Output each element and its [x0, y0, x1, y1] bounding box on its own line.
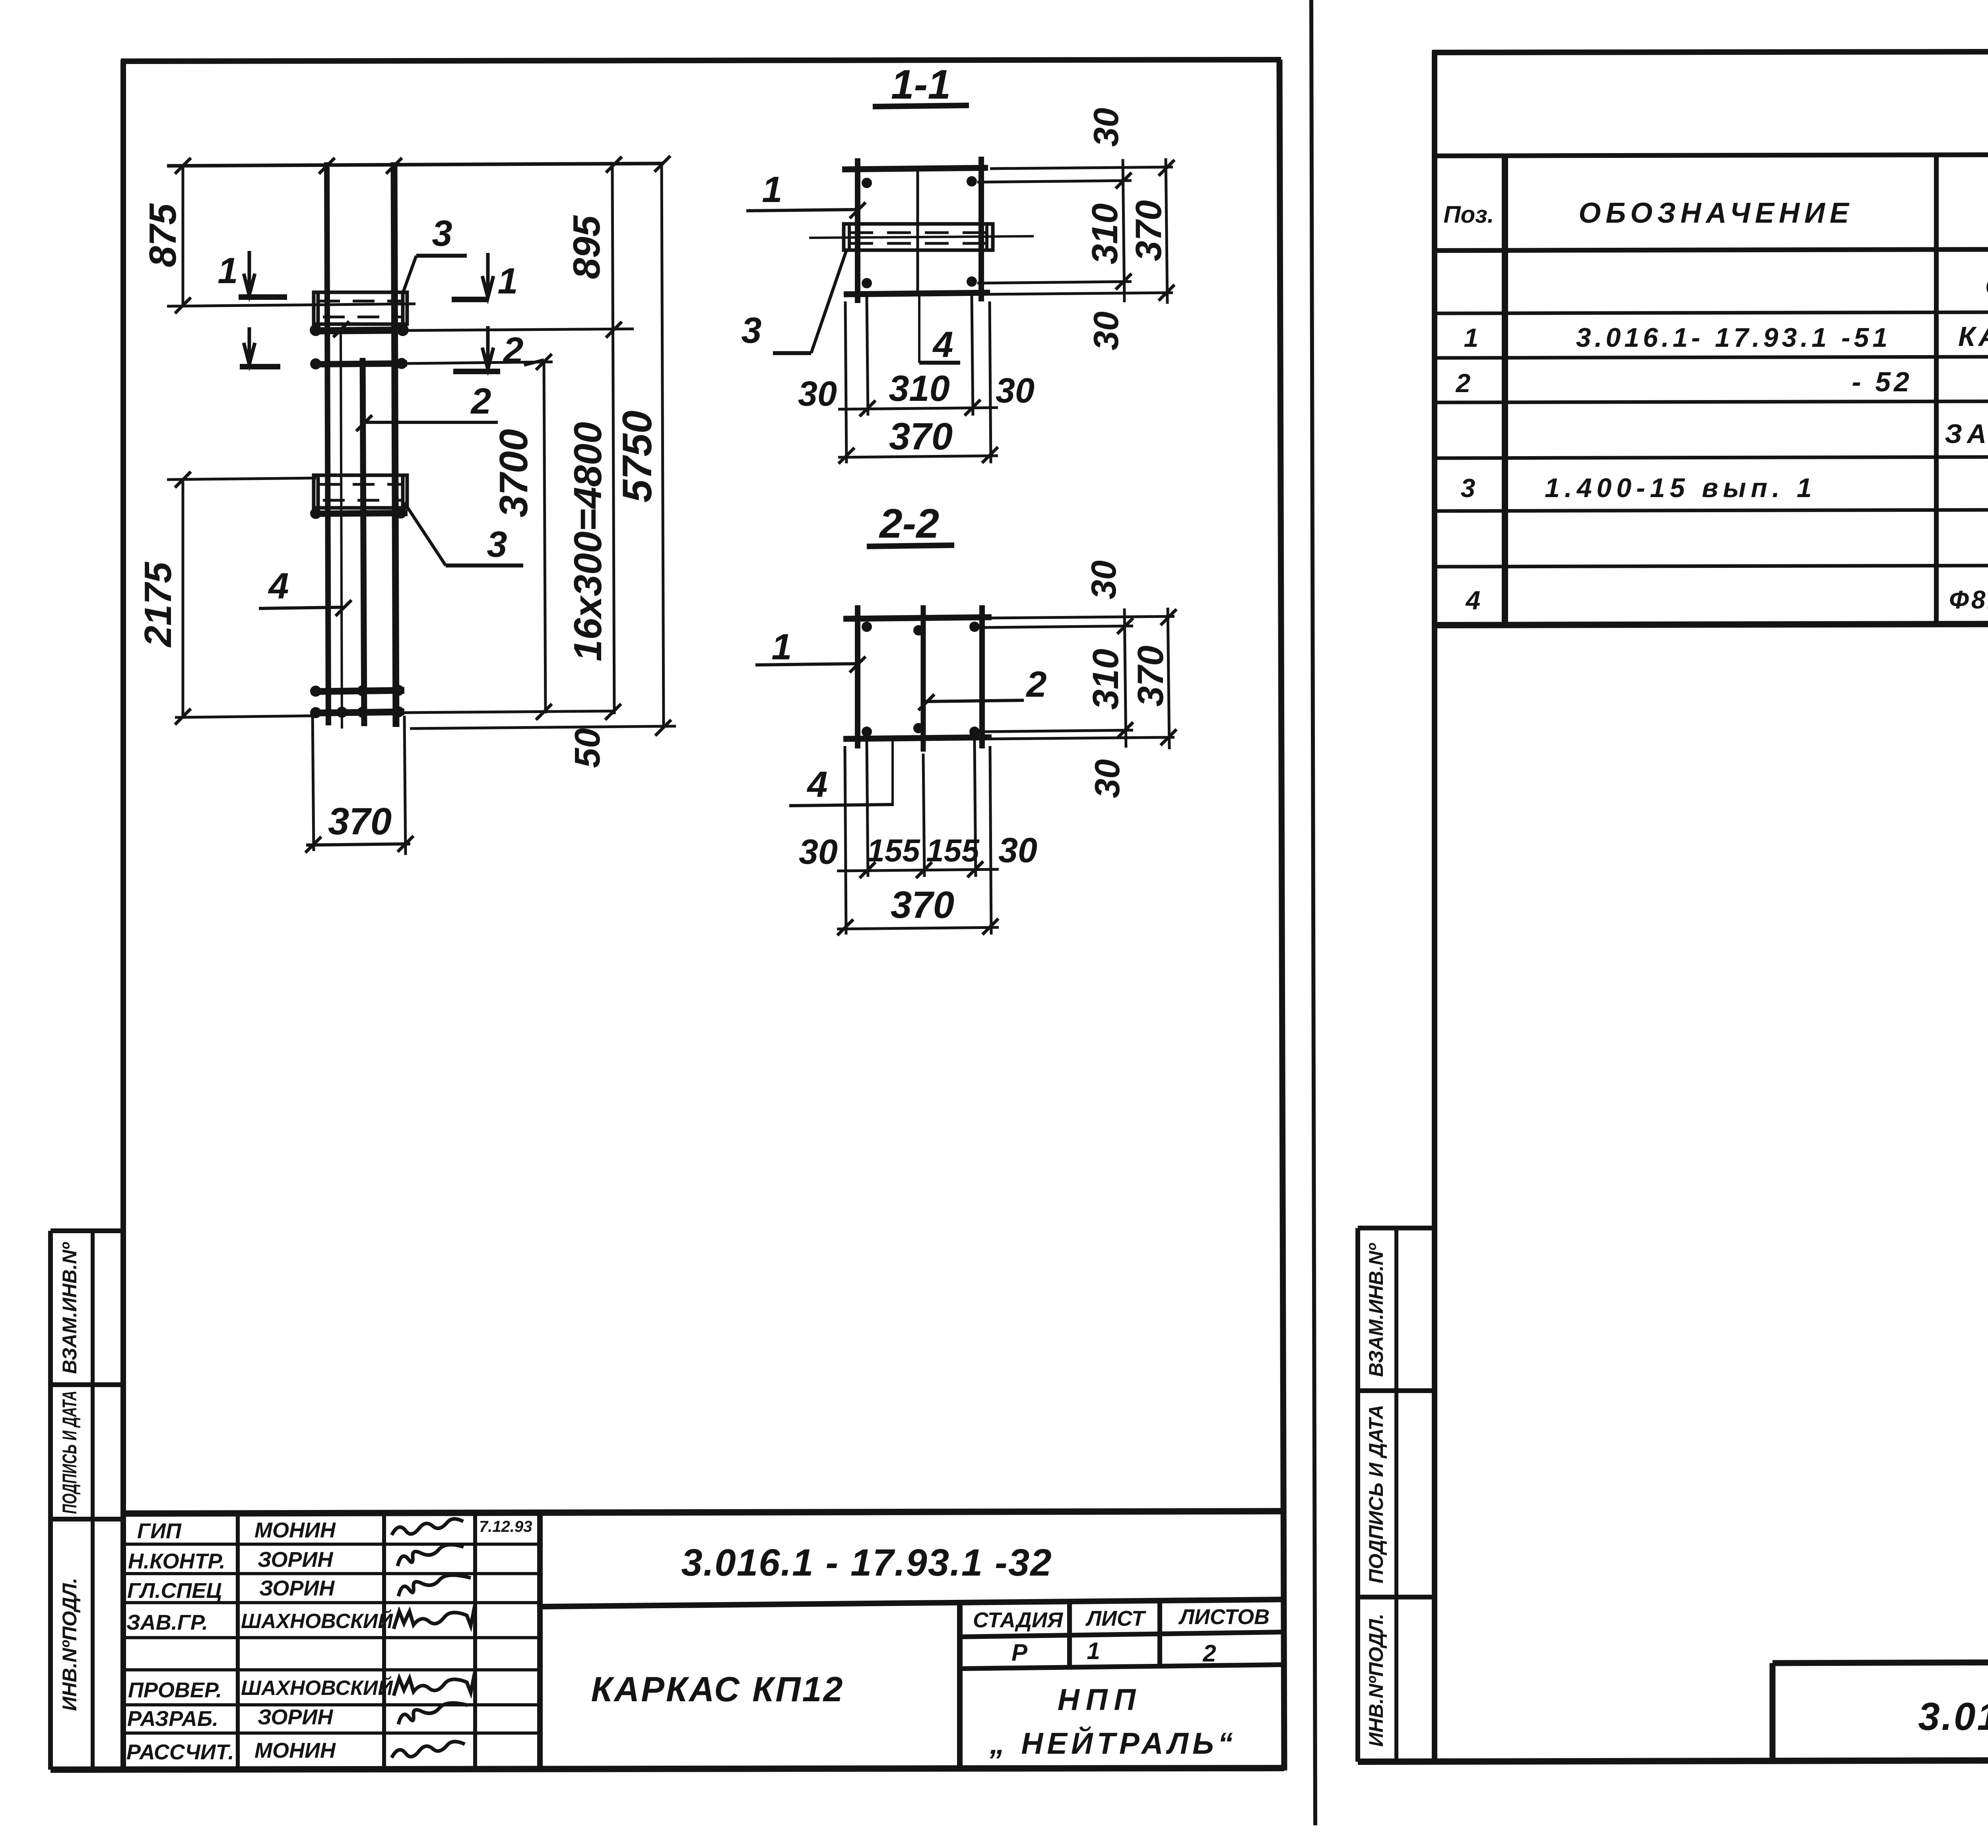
spec row Закладное изделие — [1945, 419, 1988, 449]
stirrup line 2 — [310, 321, 553, 370]
bottom stirrup 1 — [310, 685, 404, 697]
dimension 875 — [142, 166, 191, 313]
dimension line 3700 vertical — [491, 361, 546, 713]
section 1-1 leader label 3 — [741, 251, 846, 353]
svg-text:30: 30 — [1086, 311, 1126, 350]
svg-text:ПРОВЕР.: ПРОВЕР. — [128, 1678, 222, 1702]
dimension 370 bottom of elevation — [305, 712, 414, 855]
extension line 2175 top — [167, 478, 316, 480]
svg-text:30: 30 — [1084, 560, 1123, 599]
svg-text:Ф8АI, ГОСТ5781-82*, ℓ=370: Ф8АI, ГОСТ5781-82*, ℓ=370 — [1949, 585, 1988, 614]
svg-text:4: 4 — [1465, 585, 1481, 615]
svg-text:310: 310 — [1085, 203, 1125, 264]
svg-text:СТАДИЯ: СТАДИЯ — [973, 1608, 1064, 1632]
svg-text:КАРКАС КП12: КАРКАС КП12 — [591, 1669, 845, 1709]
rebar bar 1 right vertical — [394, 162, 396, 727]
title row ГИП МОНИН — [137, 1518, 532, 1543]
svg-text:155: 155 — [867, 833, 920, 868]
svg-text:ВЗАМ.ИНВ.Nº: ВЗАМ.ИНВ.Nº — [58, 1242, 81, 1374]
leader label 2 — [356, 381, 498, 431]
svg-text:3700: 3700 — [491, 429, 536, 517]
svg-text:ЛИСТ: ЛИСТ — [1085, 1607, 1146, 1630]
leader label 3 lower — [404, 503, 523, 565]
svg-text:310: 310 — [889, 368, 950, 409]
svg-text:310: 310 — [1085, 649, 1126, 710]
svg-text:5750: 5750 — [614, 410, 660, 502]
section 1-1 title — [873, 62, 969, 108]
svg-text:ЗОРИН: ЗОРИН — [258, 1705, 333, 1729]
stirrup weld line under hoop 1 — [310, 322, 634, 338]
sheet 1 frame — [50, 60, 1284, 1772]
svg-text:370: 370 — [889, 415, 953, 458]
sheet 2 doc number — [1918, 1694, 1988, 1738]
svg-text:3: 3 — [432, 213, 452, 254]
extension line at hoop level — [167, 304, 415, 306]
section 2-2 leader label 1 — [755, 627, 866, 672]
svg-text:4: 4 — [268, 566, 289, 606]
svg-text:895: 895 — [565, 215, 608, 279]
spec row 1 Каркас КР13 — [1464, 320, 1988, 353]
section 2-2 stirrup square — [843, 605, 992, 752]
svg-text:1-1: 1-1 — [891, 62, 951, 108]
svg-text:30: 30 — [998, 830, 1037, 870]
spec row 3 МН807 — [1461, 470, 1988, 503]
leader label 4 — [259, 566, 351, 616]
svg-text:2: 2 — [1455, 368, 1471, 398]
svg-text:ЗОРИН: ЗОРИН — [258, 1548, 333, 1572]
section 1-1 bottom dims 30/310/30/370 — [798, 296, 1035, 464]
svg-text:2175: 2175 — [137, 562, 179, 648]
title row Н.КОНТР ЗОРИН — [128, 1545, 464, 1573]
svg-text:3: 3 — [487, 524, 507, 565]
section 1-1 leader label 4 — [919, 294, 960, 365]
title row ГЛ.СПЕЦ ЗОРИН — [127, 1575, 471, 1603]
svg-text:ГЛ.СПЕЦ: ГЛ.СПЕЦ — [127, 1579, 222, 1603]
sheet 2 bottom title strip — [1773, 1661, 1988, 1761]
svg-text:1: 1 — [762, 169, 782, 210]
svg-text:1: 1 — [1464, 323, 1479, 352]
svg-text:ПОДПИСЬ И ДАТА: ПОДПИСЬ И ДАТА — [58, 1391, 81, 1514]
top dimension line — [167, 156, 670, 174]
svg-text:СБОРОЧНЫЕ ЕДИНИЦЫ: СБОРОЧНЫЕ ЕДИНИЦЫ — [1985, 271, 1988, 301]
spec row Сборочные единицы — [1985, 271, 1988, 303]
svg-text:370: 370 — [328, 800, 392, 843]
stadia values Р 1 2 — [1011, 1638, 1216, 1667]
svg-text:ШАХНОВСКИЙ: ШАХНОВСКИЙ — [241, 1609, 393, 1633]
svg-text:МОНИН: МОНИН — [254, 1518, 336, 1542]
svg-text:3: 3 — [741, 310, 761, 351]
svg-text:2: 2 — [1025, 664, 1046, 705]
sheet 2 side label Взам.инв.№ — [1365, 1243, 1387, 1377]
svg-text:ЗОРИН: ЗОРИН — [259, 1576, 335, 1600]
svg-text:2: 2 — [1202, 1640, 1216, 1667]
section 2-2 rebars — [862, 622, 980, 737]
section 1-1 leader label 1 — [746, 169, 866, 218]
svg-text:Н.КОНТР.: Н.КОНТР. — [128, 1549, 225, 1573]
svg-text:3.016.1 - 17.93.1 -32: 3.016.1 - 17.93.1 -32 — [681, 1541, 1052, 1584]
svg-text:2: 2 — [502, 330, 523, 371]
svg-text:„ НЕЙТРАЛЬ“: „ НЕЙТРАЛЬ“ — [989, 1726, 1237, 1761]
section mark 1 left — [217, 251, 287, 297]
spec row 2 КР14 — [1455, 365, 1988, 398]
svg-text:370: 370 — [1130, 645, 1171, 707]
section 1-1 right dims 30/310/370 — [977, 108, 1175, 350]
svg-text:370: 370 — [1128, 200, 1169, 261]
svg-text:ПОДПИСЬ И ДАТА: ПОДПИСЬ И ДАТА — [1365, 1405, 1387, 1583]
svg-text:ГИП: ГИП — [137, 1519, 182, 1543]
svg-text:3: 3 — [1461, 473, 1475, 503]
svg-text:ОБОЗНАЧЕНИЕ: ОБОЗНАЧЕНИЕ — [1578, 197, 1854, 229]
title row РАЗРАБ. ЗОРИН — [127, 1703, 468, 1731]
svg-text:РАССЧИТ.: РАССЧИТ. — [126, 1740, 234, 1764]
sheet 1 side column boxes — [50, 1231, 123, 1770]
svg-text:1: 1 — [771, 627, 792, 667]
svg-text:30: 30 — [798, 374, 837, 413]
svg-text:30: 30 — [1087, 759, 1127, 798]
svg-text:30: 30 — [996, 371, 1035, 410]
svg-text:1: 1 — [497, 261, 518, 301]
section 1-1 corner rebars — [862, 176, 977, 288]
dimension line 5750 vertical — [614, 165, 664, 729]
svg-text:30: 30 — [1086, 108, 1126, 147]
section 2-2 bottom dims 30/155/155/30/370 — [799, 740, 1037, 935]
title row РАССЧИТ. МОНИН — [126, 1739, 465, 1764]
section mark 2 left — [240, 327, 280, 367]
svg-text:2-2: 2-2 — [879, 501, 939, 547]
sheet 2 frame — [1358, 51, 1988, 1762]
svg-text:875: 875 — [142, 203, 184, 267]
svg-text:ЗАВ.ГР.: ЗАВ.ГР. — [126, 1611, 208, 1634]
svg-text:30: 30 — [799, 832, 838, 871]
spec row 4 Ф8АI ГОСТ5781-82 — [1465, 583, 1988, 615]
section mark 2 right — [453, 326, 544, 371]
svg-text:ИНВ.NºПОДЛ.: ИНВ.NºПОДЛ. — [58, 1578, 81, 1711]
svg-text:МОНИН: МОНИН — [254, 1739, 336, 1762]
embedded plate МН807 upper (hoop 1) — [314, 292, 407, 324]
svg-text:ИНВ.NºПОДЛ.: ИНВ.NºПОДЛ. — [1365, 1614, 1387, 1747]
svg-text:2: 2 — [470, 381, 491, 422]
svg-text:Р: Р — [1011, 1639, 1028, 1666]
svg-text:155: 155 — [926, 833, 980, 868]
svg-text:370: 370 — [891, 884, 954, 926]
specification table grid — [1432, 154, 1988, 625]
svg-text:КАРКАС: КАРКАС — [1958, 321, 1988, 352]
bars bottom extension line — [410, 720, 676, 736]
svg-text:ВЗАМ.ИНВ.Nº: ВЗАМ.ИНВ.Nº — [1365, 1243, 1387, 1377]
spec header ОБОЗНАЧЕНИЕ — [1578, 197, 1854, 229]
section 2-2 title — [867, 501, 954, 547]
sheet 2 side column boxes — [1358, 1228, 1435, 1762]
svg-text:4: 4 — [806, 764, 827, 805]
svg-text:ШАХНОВСКИЙ: ШАХНОВСКИЙ — [241, 1676, 393, 1700]
svg-text:- 52: - 52 — [1852, 366, 1912, 397]
sheet 2 side label Подпись и дата — [1365, 1405, 1387, 1583]
bottom stirrup 2 — [310, 704, 621, 720]
section 2-2 right dims 30/310/370 — [980, 560, 1176, 798]
dimension 50 — [568, 728, 608, 768]
title row ПРОВЕР. ШАХНОВСКИЙ — [128, 1673, 475, 1702]
rebar bar 1 left vertical — [327, 162, 328, 725]
svg-text:РАЗРАБ.: РАЗРАБ. — [127, 1707, 218, 1731]
svg-text:3.016.1-17.93.1 -32: 3.016.1-17.93.1 -32 — [1918, 1694, 1988, 1738]
title row ЗАВ.ГР. ШАХНОВСКИЙ — [126, 1606, 475, 1634]
section 2-2 leader label 2 — [918, 664, 1047, 710]
svg-text:50: 50 — [568, 728, 608, 768]
stadia list listov headers — [973, 1605, 1270, 1632]
doc number sheet 1 — [681, 1541, 1052, 1584]
svg-text:ЗАКЛАДНОЕ ИЗДЕЛНЕ: ЗАКЛАДНОЕ ИЗДЕЛНЕ — [1945, 419, 1988, 449]
embedded plate МН807 lower (hoop 2) — [314, 475, 407, 508]
sheet 1 title block frame — [123, 1511, 1282, 1769]
side label Подпись и дата — [58, 1391, 81, 1514]
svg-text:1: 1 — [217, 251, 238, 291]
section 1-1 embedded plate МН807 — [809, 224, 1034, 250]
dimension line 895 / 16x300=4800 vertical — [565, 165, 614, 714]
svg-text:16х300=4800: 16х300=4800 — [566, 422, 610, 661]
section 1-1 stirrup square — [842, 157, 990, 303]
section 2-2 leader label 4 — [789, 740, 894, 806]
svg-text:1.400-15 вып. 1: 1.400-15 вып. 1 — [1545, 473, 1817, 503]
spec header Поз. — [1443, 201, 1494, 228]
leader label 3 upper — [402, 213, 467, 294]
page divider line between sheets — [1311, 0, 1315, 1825]
svg-text:ЛИСТОВ: ЛИСТОВ — [1178, 1605, 1270, 1629]
svg-text:4: 4 — [932, 325, 953, 365]
svg-text:7.12.93: 7.12.93 — [479, 1518, 532, 1535]
rebar bar 2 middle vertical — [363, 358, 364, 726]
name КАРКАС КП12 — [591, 1669, 845, 1709]
НПП НЕЙТРАЛЬ — [989, 1683, 1237, 1761]
svg-text:1: 1 — [1087, 1638, 1100, 1664]
section mark 1 right — [452, 253, 518, 301]
dimension 2175 — [137, 472, 313, 725]
rebar bar 4 thin vertical — [341, 333, 342, 729]
svg-text:Поз.: Поз. — [1443, 201, 1494, 228]
stirrup weld line under hoop 2 — [310, 507, 408, 519]
sheet 2 side label Инв.№ подл. — [1365, 1614, 1387, 1747]
side label Инв.№ подл. — [58, 1578, 81, 1711]
svg-text:3.016.1- 17.93.1 -51: 3.016.1- 17.93.1 -51 — [1576, 323, 1891, 353]
svg-text:НПП: НПП — [1058, 1683, 1142, 1717]
side label Взам.инв.№ — [58, 1242, 81, 1374]
